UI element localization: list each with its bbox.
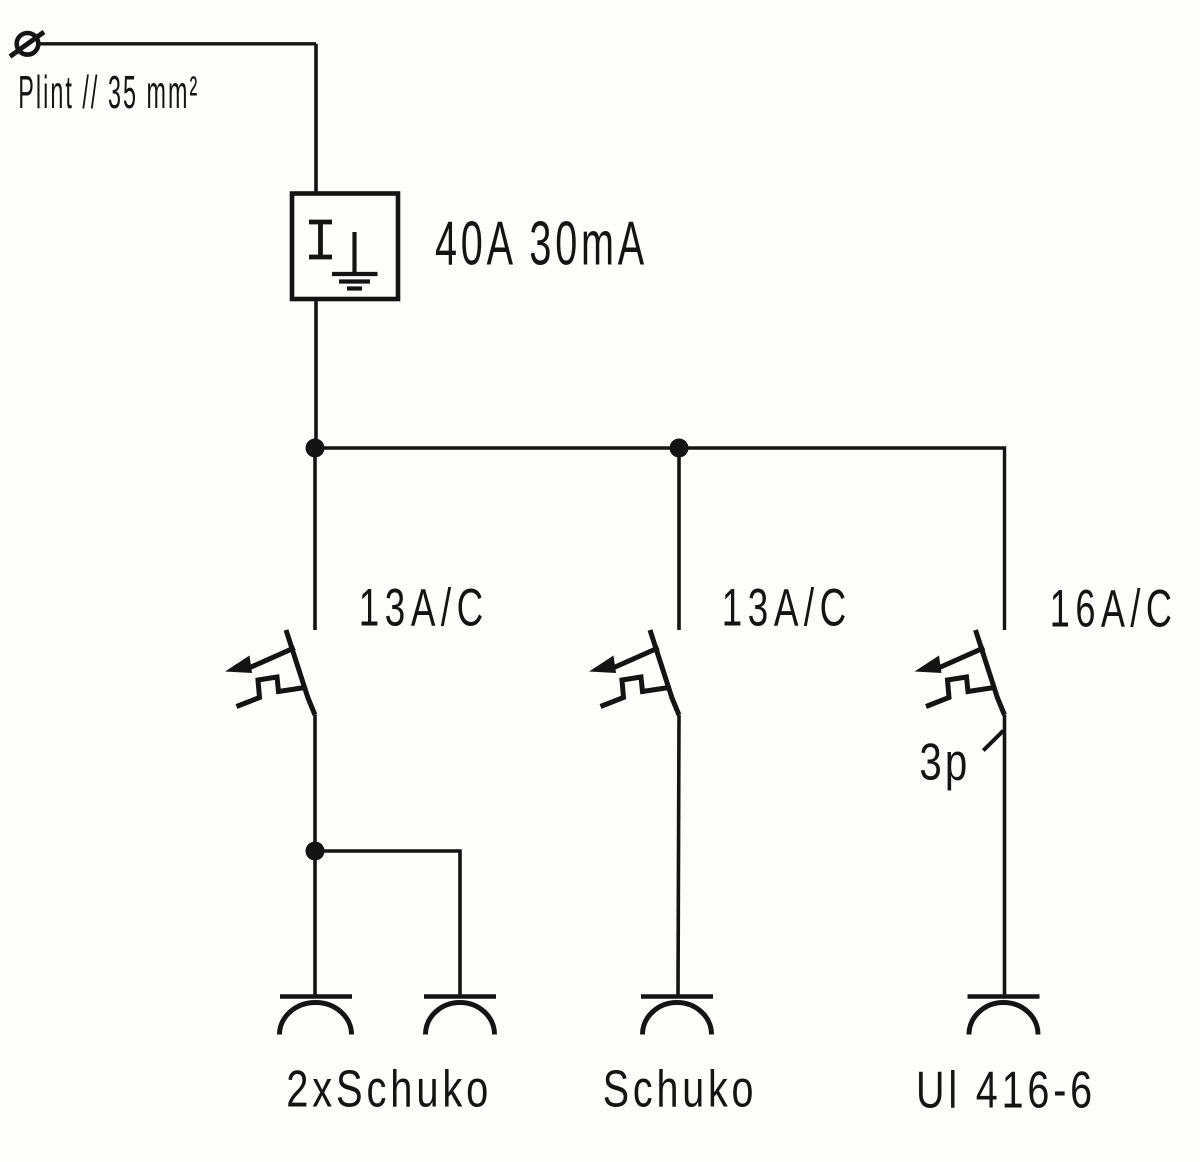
bus wire: horizontal distribution line with corner down to breaker Q3	[315, 448, 1005, 630]
svg-text:Schuko: Schuko	[603, 1060, 758, 1118]
svg-text:13A/C: 13A/C	[722, 579, 852, 638]
svg-text:Ul 416-6: Ul 416-6	[916, 1061, 1096, 1119]
breaker Q3 (16A/C MCB, 3-pole)	[915, 630, 1005, 715]
svg-text:40A 30mA: 40A 30mA	[435, 209, 648, 279]
socket outlet X2	[424, 997, 496, 1035]
wire: breaker Q2 down to socket X3	[678, 715, 679, 996]
wire: junction C branch to socket X2	[315, 851, 460, 996]
socket outlet X4	[968, 997, 1040, 1035]
terminal: Plint connection point	[10, 32, 44, 57]
wire: bus down to breaker Q1	[313, 448, 317, 630]
wire: RCD bottom to bus	[314, 300, 318, 448]
3p pointer tick	[983, 731, 1003, 751]
junction node B	[670, 439, 689, 458]
junction node C	[306, 842, 325, 861]
svg-text:3p: 3p	[919, 734, 970, 792]
svg-text:Plint // 35 mm²: Plint // 35 mm²	[18, 66, 199, 118]
junction node A	[306, 439, 325, 458]
wire: junction C down to socket X1	[313, 851, 317, 996]
breaker Q1 (13A/C MCB)	[225, 630, 315, 715]
wire: breaker Q3 down to socket X4	[1003, 715, 1007, 996]
wire: bus down to breaker Q2	[677, 448, 681, 630]
socket outlet X1	[280, 997, 353, 1035]
wire: terminal to top corner	[40, 42, 316, 45]
breaker Q2 (13A/C MCB)	[589, 630, 679, 715]
socket outlet X3	[641, 997, 713, 1035]
svg-text:13A/C: 13A/C	[359, 579, 489, 638]
svg-text:16A/C: 16A/C	[1050, 580, 1178, 639]
wire: breaker Q1 to junction C	[313, 715, 317, 851]
RCD F1 box	[292, 194, 398, 300]
RCD I symbol	[309, 222, 332, 257]
svg-text:2xSchuko: 2xSchuko	[286, 1060, 492, 1118]
RCD earth symbol	[332, 232, 378, 289]
wire: corner down to RCD top	[314, 44, 318, 194]
